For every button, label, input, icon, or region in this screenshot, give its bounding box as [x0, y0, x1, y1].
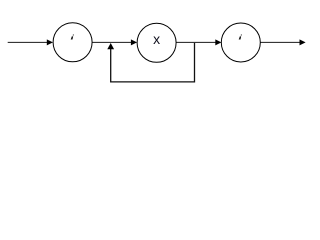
svg-text:x: x: [153, 31, 160, 47]
